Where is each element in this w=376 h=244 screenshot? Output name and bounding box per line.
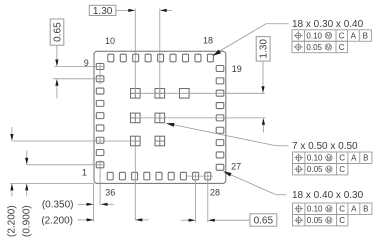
- dimension 0.65 bottom arrow right: [181, 219, 189, 221]
- dimension 0.65 left line down: [56, 45, 58, 60]
- svg-text:18: 18: [203, 36, 213, 46]
- bottom 0.65 extension line pad 28: [207, 172, 209, 223]
- svg-text:M: M: [327, 207, 332, 213]
- pad 13 (top row): [145, 54, 151, 62]
- thermal pad E7: [155, 136, 165, 146]
- centerline pads 9-8: [99, 62, 101, 84]
- pad 14 (top row): [158, 54, 164, 62]
- svg-text:C: C: [339, 154, 345, 163]
- extension line pad 3 row: [12, 140, 140, 142]
- thermal pad E3: [180, 89, 190, 99]
- svg-text:0.05: 0.05: [307, 216, 323, 225]
- pad 12 (top row): [133, 54, 139, 62]
- svg-text:36: 36: [105, 188, 115, 198]
- dimension 0.65 left box: [50, 19, 64, 45]
- pad 4 (left column): [96, 125, 104, 131]
- pad 19 (right column): [216, 66, 224, 72]
- svg-text:0.10: 0.10: [307, 154, 323, 163]
- svg-text:B: B: [363, 154, 368, 163]
- svg-text:18 x 0.30 x 0.40: 18 x 0.30 x 0.40: [292, 19, 364, 30]
- dimension 2.200 arrow up: [10, 183, 13, 190]
- pad 6 (left column): [96, 100, 104, 106]
- feature control frame for thermal pads: [293, 152, 372, 175]
- extension line inner row 2: [135, 117, 265, 119]
- svg-text:0.10: 0.10: [307, 205, 323, 214]
- pad 21 (right column): [216, 90, 224, 96]
- thermal pad E5: [155, 113, 165, 123]
- leader to pad 18: [266, 23, 289, 25]
- svg-text:7 x 0.50 x 0.50: 7 x 0.50 x 0.50: [292, 141, 358, 152]
- dimension 0.65 left arrow down: [55, 60, 58, 67]
- dimension 2.200 arrow down: [11, 127, 13, 134]
- extension line pad 12 column: [134, 9, 136, 94]
- pad 16 (top row): [183, 54, 189, 62]
- dimension 2.200 bottom arrow right: [78, 219, 88, 221]
- dimension 1.30 top leader line: [116, 9, 129, 11]
- pad 15 (top row): [170, 54, 176, 62]
- pad 29 (bottom row): [193, 172, 199, 180]
- pad 1 (left column): [96, 162, 104, 168]
- svg-text:M: M: [326, 34, 331, 40]
- svg-text:28: 28: [210, 188, 220, 198]
- svg-text:10: 10: [105, 36, 115, 46]
- dimension 1.30 right arrow down: [261, 86, 264, 93]
- pad 34 (bottom row): [132, 172, 138, 180]
- svg-text:M: M: [327, 156, 332, 162]
- svg-text:0.05: 0.05: [307, 165, 323, 174]
- pad 32 (bottom row): [156, 172, 162, 180]
- svg-text:27: 27: [231, 161, 241, 171]
- svg-text:A: A: [351, 31, 357, 40]
- svg-text:B: B: [363, 31, 368, 40]
- extension line pad 14 column: [159, 9, 161, 94]
- centerline pad 3 tick: [99, 137, 101, 145]
- pad 8 (left column): [96, 76, 104, 82]
- dimension 1.30 top arrow right: [128, 9, 135, 12]
- svg-text:18 x 0.40 x 0.30: 18 x 0.40 x 0.30: [292, 190, 364, 201]
- pad 26 (right column): [216, 152, 224, 158]
- pad 30 (bottom row): [180, 172, 186, 180]
- svg-text:M: M: [327, 218, 332, 224]
- pad 27 (right column): [216, 164, 224, 170]
- svg-text:M: M: [326, 45, 331, 51]
- pad 31 (bottom row): [168, 172, 174, 180]
- extension line package bottom edge: [10, 182, 94, 184]
- thermal pad E4: [131, 113, 141, 123]
- svg-text:B: B: [363, 205, 368, 214]
- dimension 0.65 bottom box: [250, 214, 277, 227]
- thermal pad E1: [131, 89, 141, 99]
- pad 3 (left column): [96, 137, 104, 143]
- dimension 1.30 right arrow up: [262, 118, 265, 125]
- dimension 0.350 arrow left: [101, 203, 108, 206]
- pad 28 (bottom row): [205, 172, 211, 180]
- svg-text:1.30: 1.30: [93, 6, 113, 17]
- pad 7 (left column): [96, 88, 104, 94]
- leader to pad 27: [276, 194, 286, 196]
- svg-text:1.30: 1.30: [259, 39, 270, 59]
- extension line inner row 1: [135, 92, 264, 94]
- svg-text:(0.350): (0.350): [42, 200, 74, 211]
- pad 9 (left column): [96, 64, 104, 70]
- package outline: [94, 51, 226, 183]
- pad 18 (top row): [207, 54, 213, 62]
- pad 17 (top row): [195, 54, 201, 62]
- pad 5 (left column): [96, 113, 104, 119]
- dimension 1.30 top arrow left: [160, 9, 167, 12]
- pad 36 (bottom row): [107, 172, 113, 180]
- dimension 0.900 arrow up: [25, 183, 28, 190]
- bottom 0.65 extension line pad 29: [195, 172, 197, 223]
- extension line pad 9: [54, 66, 104, 68]
- svg-text:0.65: 0.65: [52, 22, 63, 42]
- dimension 0.65 left arrow up: [55, 79, 58, 86]
- svg-text:C: C: [339, 43, 345, 52]
- thermal pad E6: [131, 136, 141, 146]
- dimension 1.30 right box: [256, 37, 270, 62]
- svg-text:(0.900): (0.900): [21, 205, 32, 237]
- svg-text:C: C: [339, 165, 345, 174]
- thermal pad E2: [155, 89, 165, 99]
- svg-text:0.05: 0.05: [306, 43, 322, 52]
- svg-text:(2.200): (2.200): [41, 215, 73, 226]
- dimension 2.200 bottom arrow left: [135, 218, 142, 221]
- extension line pad 34 column down: [134, 146, 136, 221]
- svg-text:(2.200): (2.200): [6, 205, 17, 237]
- pad 11 (top row): [120, 54, 126, 62]
- svg-text:C: C: [339, 216, 345, 225]
- dimension 0.65 bottom arrow left: [208, 219, 215, 222]
- dimension 0.350 arrow right: [78, 203, 88, 205]
- svg-text:A: A: [351, 205, 357, 214]
- pad 35 (bottom row): [119, 172, 125, 180]
- pad 33 (bottom row): [144, 172, 150, 180]
- svg-text:A: A: [351, 154, 357, 163]
- pad 25 (right column): [216, 140, 224, 146]
- svg-text:0.10: 0.10: [306, 31, 322, 40]
- pad 23 (right column): [216, 115, 224, 121]
- dimension 1.30 right line down: [262, 61, 264, 86]
- svg-text:C: C: [339, 31, 345, 40]
- pad 10 (top row): [108, 54, 114, 62]
- pad 2 (left column): [96, 150, 104, 156]
- extension line pad 8: [53, 78, 104, 80]
- feature control frame for pads 18x0.40x0.30: [293, 203, 372, 226]
- pad 22 (right column): [216, 103, 224, 109]
- centerline pad 1: [99, 160, 101, 206]
- feature control frame for pads 18x0.30x0.40: [292, 30, 371, 53]
- svg-text:9: 9: [84, 58, 89, 68]
- dimension 0.900 arrow down: [26, 151, 28, 158]
- pad 20 (right column): [216, 78, 224, 84]
- extension line package left edge down: [93, 183, 95, 222]
- svg-text:1: 1: [82, 167, 87, 177]
- dimension 1.30 top box: [89, 5, 116, 15]
- leader to thermal pad: [276, 145, 289, 147]
- svg-text:19: 19: [232, 64, 242, 74]
- pad 24 (right column): [216, 127, 224, 133]
- svg-text:C: C: [339, 205, 345, 214]
- svg-text:M: M: [327, 167, 332, 173]
- svg-text:0.65: 0.65: [254, 216, 274, 227]
- centerline pads 29-28: [186, 175, 213, 177]
- extension line pad 1 row: [27, 164, 104, 166]
